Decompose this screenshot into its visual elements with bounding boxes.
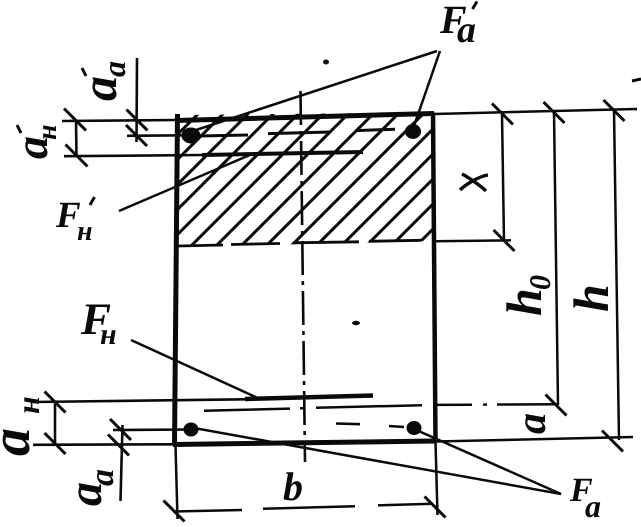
svg-text:0: 0 <box>524 275 557 290</box>
bottom reinforcement dot left <box>184 423 199 437</box>
tick h0 top <box>544 102 565 123</box>
svg-text:h: h <box>563 284 619 312</box>
label x <box>460 175 488 190</box>
leader Fa from left dot <box>194 428 561 494</box>
tick aa top <box>110 419 131 440</box>
dimension line h0 <box>554 113 558 406</box>
svg-text:a: a <box>96 61 132 77</box>
svg-text:a: a <box>457 9 476 51</box>
label F'a <box>439 0 477 51</box>
tick b left <box>164 501 185 522</box>
stray ink dot mid-section <box>352 321 360 325</box>
stray dash top right edge <box>632 79 641 81</box>
tick h bottom <box>602 431 623 452</box>
vertical centerline (dash-dot axis) <box>301 91 306 462</box>
top reinforcement dot left <box>182 128 201 144</box>
bottom reinforcement dot right <box>407 421 422 435</box>
dimension line b (dashed) <box>174 504 433 512</box>
section top edge <box>175 114 434 121</box>
bottom rebar level extension line (aa) <box>113 428 192 431</box>
bottom edge left extension line <box>33 443 174 446</box>
bottom reinforcement resultant axis (dash-dot to h0 line) <box>204 404 556 411</box>
top edge left extension line <box>62 120 176 121</box>
svg-text:a: a <box>509 413 555 434</box>
label aa (rotated) <box>59 469 121 506</box>
tick a'a bottom <box>126 125 147 146</box>
svg-text:b: b <box>283 464 303 509</box>
tick aa bottom <box>108 435 129 456</box>
tick h top <box>604 100 625 121</box>
section left edge <box>175 114 178 445</box>
leader Fн to bottom bar <box>131 340 261 400</box>
svg-text:н: н <box>77 216 93 247</box>
svg-text:h: h <box>496 288 552 316</box>
compression zone bottom boundary (dashed) <box>178 240 421 246</box>
section right edge <box>433 113 436 443</box>
bottom edge right extension line <box>436 437 633 442</box>
svg-text:a: a <box>84 469 121 486</box>
label a'a (rotated) <box>71 61 132 101</box>
label a (right side, rotated) <box>509 413 555 434</box>
label h0 (rotated) <box>496 275 557 316</box>
dimension line a'н <box>75 121 78 157</box>
section bottom edge <box>173 441 436 445</box>
top reinforcement dot right <box>405 124 421 139</box>
leader F'н to top bar <box>119 155 251 212</box>
tick h0 bottom / a top <box>546 395 567 416</box>
label aн (rotated) <box>0 396 46 456</box>
b extension line right (below section) <box>436 442 438 515</box>
leader to F'a from right dot <box>414 51 440 126</box>
aн level extension line <box>33 399 245 402</box>
top rebar level extension line (a'a) <box>127 134 200 137</box>
label h (rotated) <box>563 284 619 312</box>
svg-text:н: н <box>10 396 46 414</box>
label Fa <box>569 472 601 524</box>
Fн prestressed bar (bottom, thick) <box>245 396 373 400</box>
tick x top <box>492 104 513 125</box>
top edge right extension line <box>434 109 637 114</box>
dimension line a'a (extends upward) <box>135 58 138 142</box>
tick b right <box>425 497 446 518</box>
leader Fa from right dot <box>414 429 561 494</box>
svg-text:a: a <box>585 488 601 524</box>
svg-text:a: a <box>0 428 42 456</box>
label a'н (rotated) <box>6 124 63 159</box>
label F'н <box>55 195 95 247</box>
tick aн top <box>45 392 66 413</box>
hatched compression zone <box>58 100 587 254</box>
b extension line left (below section) <box>176 445 178 519</box>
svg-text:н: н <box>32 124 63 140</box>
bottom rebar axis dashes near right dot <box>336 424 404 428</box>
svg-text:н: н <box>100 318 117 351</box>
dimension line aa (extends downward) <box>121 425 123 501</box>
dimension line h <box>614 111 619 441</box>
tick a'a top <box>127 110 148 131</box>
top reinforcement axis (dashed line through dots) <box>199 129 395 136</box>
dimension line x <box>502 115 504 241</box>
tick a'н top <box>64 109 86 131</box>
extension of zone boundary to x-dimension line <box>434 239 511 242</box>
F'н level extension line (a'н) <box>64 155 203 156</box>
stray ink dot above centerline <box>323 60 329 65</box>
F'н prestressed bar (top, thick) <box>202 152 363 155</box>
tick aн bottom <box>45 433 66 454</box>
tick x bottom <box>494 230 515 251</box>
svg-text:a: a <box>71 76 127 101</box>
dimension line aн <box>54 402 57 444</box>
tick a'н bottom <box>66 145 88 167</box>
leader to F'a from left dot <box>193 51 437 131</box>
label Fн <box>80 294 117 351</box>
